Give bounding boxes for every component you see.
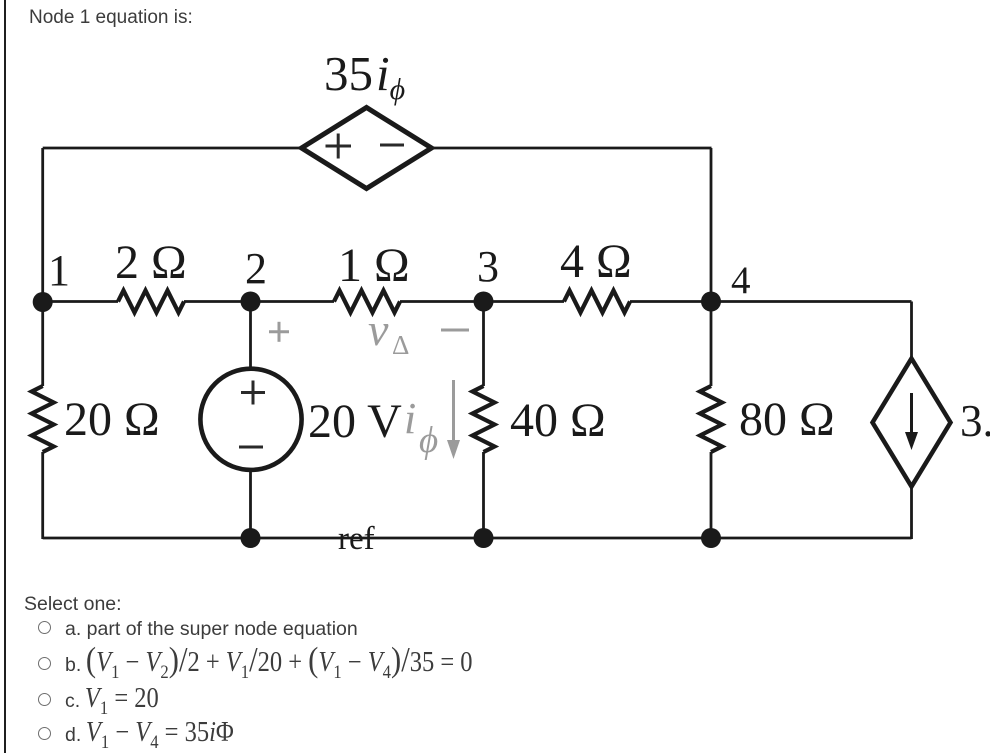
voltage source V1 20V (circle) — [200, 369, 301, 470]
label 35 i_phi — [324, 46, 405, 106]
option d — [65, 717, 256, 749]
label 2 ohm — [115, 236, 187, 289]
wire: node 4 stem down to 80ohm — [710, 302, 713, 387]
wire: 4ohm to node 4 — [630, 300, 711, 303]
svg-text:4 Ω: 4 Ω — [560, 235, 632, 288]
svg-text:ref: ref — [338, 521, 375, 557]
option a radio — [38, 621, 51, 634]
node 2 label — [245, 244, 267, 293]
resistor 4 ohm (horizontal zigzag) — [564, 291, 630, 313]
wire: right corner down to current source — [910, 302, 913, 360]
label 4 ohm — [560, 235, 632, 288]
svg-text:40 Ω: 40 Ω — [510, 394, 606, 447]
svg-text:2: 2 — [245, 244, 267, 293]
node 2 junction dot — [241, 292, 261, 312]
wire: node3 to resistor 4ohm — [484, 300, 565, 303]
node 3 junction dot — [474, 292, 494, 312]
wire: top loop right segment — [431, 147, 712, 150]
gray plus polarity mark near node 2 — [269, 322, 289, 342]
wire: node2 to resistor 1ohm — [251, 300, 335, 303]
resistor 2 ohm (horizontal zigzag) — [118, 291, 184, 313]
gray label v_delta — [368, 304, 409, 360]
wire: 20ohm to bottom-left corner — [41, 452, 44, 539]
option b radio — [38, 657, 51, 670]
svg-text:80 Ω: 80 Ω — [739, 393, 835, 446]
resistor 80 ohm (vertical zigzag) — [700, 386, 722, 452]
node 1 junction dot — [33, 292, 53, 312]
label 20 ohm — [64, 393, 160, 446]
arrow inside current source — [905, 393, 918, 450]
svg-text:ϕ: ϕ — [419, 420, 438, 461]
wire: voltage source to bottom rail — [249, 470, 252, 539]
option a — [65, 618, 358, 641]
option d radio — [38, 727, 51, 740]
svg-text:3.: 3. — [960, 396, 990, 446]
wire: 2ohm to node 2 — [184, 300, 251, 303]
label ref — [338, 521, 375, 557]
resistor 1 ohm (horizontal zigzag) — [334, 291, 400, 313]
svg-text:4: 4 — [731, 259, 751, 302]
svg-text:2 Ω: 2 Ω — [115, 236, 187, 289]
svg-text:Δ: Δ — [392, 330, 409, 360]
wire: left rail from top wire to node 1 — [41, 148, 44, 302]
junction dot bottom under node 3 — [474, 528, 494, 548]
gray label i_phi — [404, 394, 438, 461]
wire: node 4 up to top wire — [710, 148, 713, 302]
svg-text:1 Ω: 1 Ω — [338, 239, 410, 292]
label 20 V — [308, 395, 402, 448]
option c radio — [38, 693, 51, 706]
wire: 80ohm to bottom rail — [710, 452, 713, 539]
svg-text:20 V: 20 V — [308, 395, 402, 448]
wire: 40ohm to bottom rail — [482, 452, 485, 539]
question title — [29, 7, 193, 29]
label 40 ohm — [510, 394, 606, 447]
wire: node1 to resistor 2ohm — [43, 300, 118, 303]
svg-text:35iϕ: 35iϕ — [324, 46, 405, 106]
node 1 label — [48, 246, 70, 295]
label 80 ohm — [739, 393, 835, 446]
label 3. — [960, 396, 990, 446]
resistor 20 ohm (vertical zigzag) — [32, 386, 54, 452]
select one prompt — [24, 593, 122, 616]
wire: node 2 stem down to voltage source — [249, 302, 252, 370]
option c — [65, 683, 170, 715]
dependent current source I1 (diamond) — [873, 359, 951, 487]
label 1 ohm — [338, 239, 410, 292]
wire: current source to bottom-right corner — [910, 487, 913, 540]
minus sign inside voltage source — [239, 446, 263, 449]
wire: top loop left segment — [43, 147, 302, 150]
minus sign inside U1 — [380, 144, 404, 147]
wire: 1ohm to node 3 — [400, 300, 484, 303]
svg-text:20 Ω: 20 Ω — [64, 393, 160, 446]
wire: bottom rail — [43, 537, 912, 540]
option b — [65, 647, 529, 679]
wire: node 4 to right corner — [711, 300, 912, 303]
plus sign inside U1 — [326, 134, 352, 159]
left vertical border of question block — [4, 0, 6, 753]
svg-text:v: v — [368, 304, 389, 355]
svg-text:i: i — [404, 394, 416, 443]
dependent voltage source U1 (diamond, 35 i_phi) — [302, 108, 432, 189]
node 3 label — [477, 242, 499, 291]
node 4 junction dot — [701, 292, 721, 312]
junction dot bottom under node 2 — [241, 528, 261, 548]
node 4 label — [731, 259, 751, 302]
svg-text:1: 1 — [48, 246, 70, 295]
wire: node 3 stem down to 40ohm — [482, 302, 485, 387]
wire: node 1 to 20ohm resistor — [41, 302, 44, 386]
junction dot bottom under node 4 — [701, 528, 721, 548]
gray minus polarity mark near node 3 — [441, 329, 469, 332]
svg-text:3: 3 — [477, 242, 499, 291]
plus sign inside voltage source — [241, 381, 265, 405]
resistor 40 ohm (vertical zigzag) — [473, 386, 495, 452]
gray current arrow i_phi — [447, 380, 460, 459]
